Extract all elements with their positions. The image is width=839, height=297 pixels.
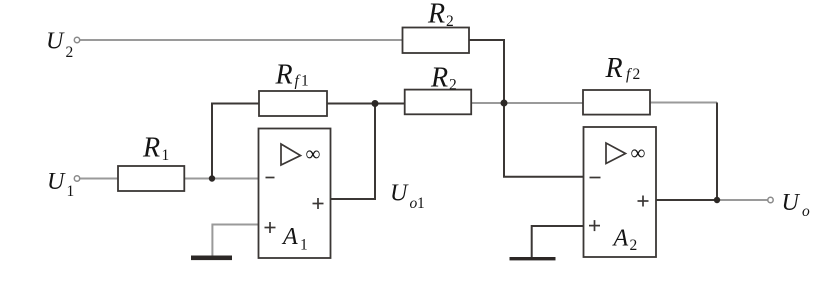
svg-text:o: o [802,203,810,220]
svg-text:1: 1 [301,73,309,90]
svg-text:R: R [427,0,445,30]
svg-text:1: 1 [67,183,75,200]
svg-text:A: A [612,226,629,252]
svg-text:A: A [281,224,298,250]
svg-text:1: 1 [300,237,308,254]
svg-text:2: 2 [446,13,454,30]
svg-text:2: 2 [633,66,641,83]
svg-text:R: R [275,60,293,91]
svg-text:R: R [605,53,623,84]
svg-text:R: R [142,132,160,163]
svg-text:2: 2 [630,237,638,254]
svg-text:1: 1 [417,195,425,212]
svg-text:U: U [46,28,65,54]
svg-text:U: U [390,180,409,206]
svg-text:∞: ∞ [306,141,321,165]
svg-text:U: U [47,169,66,195]
svg-text:2: 2 [66,44,74,61]
svg-text:1: 1 [162,147,170,164]
svg-text:∞: ∞ [631,140,646,164]
svg-text:R: R [430,62,448,93]
svg-text:U: U [782,190,801,216]
svg-text:2: 2 [449,77,457,94]
